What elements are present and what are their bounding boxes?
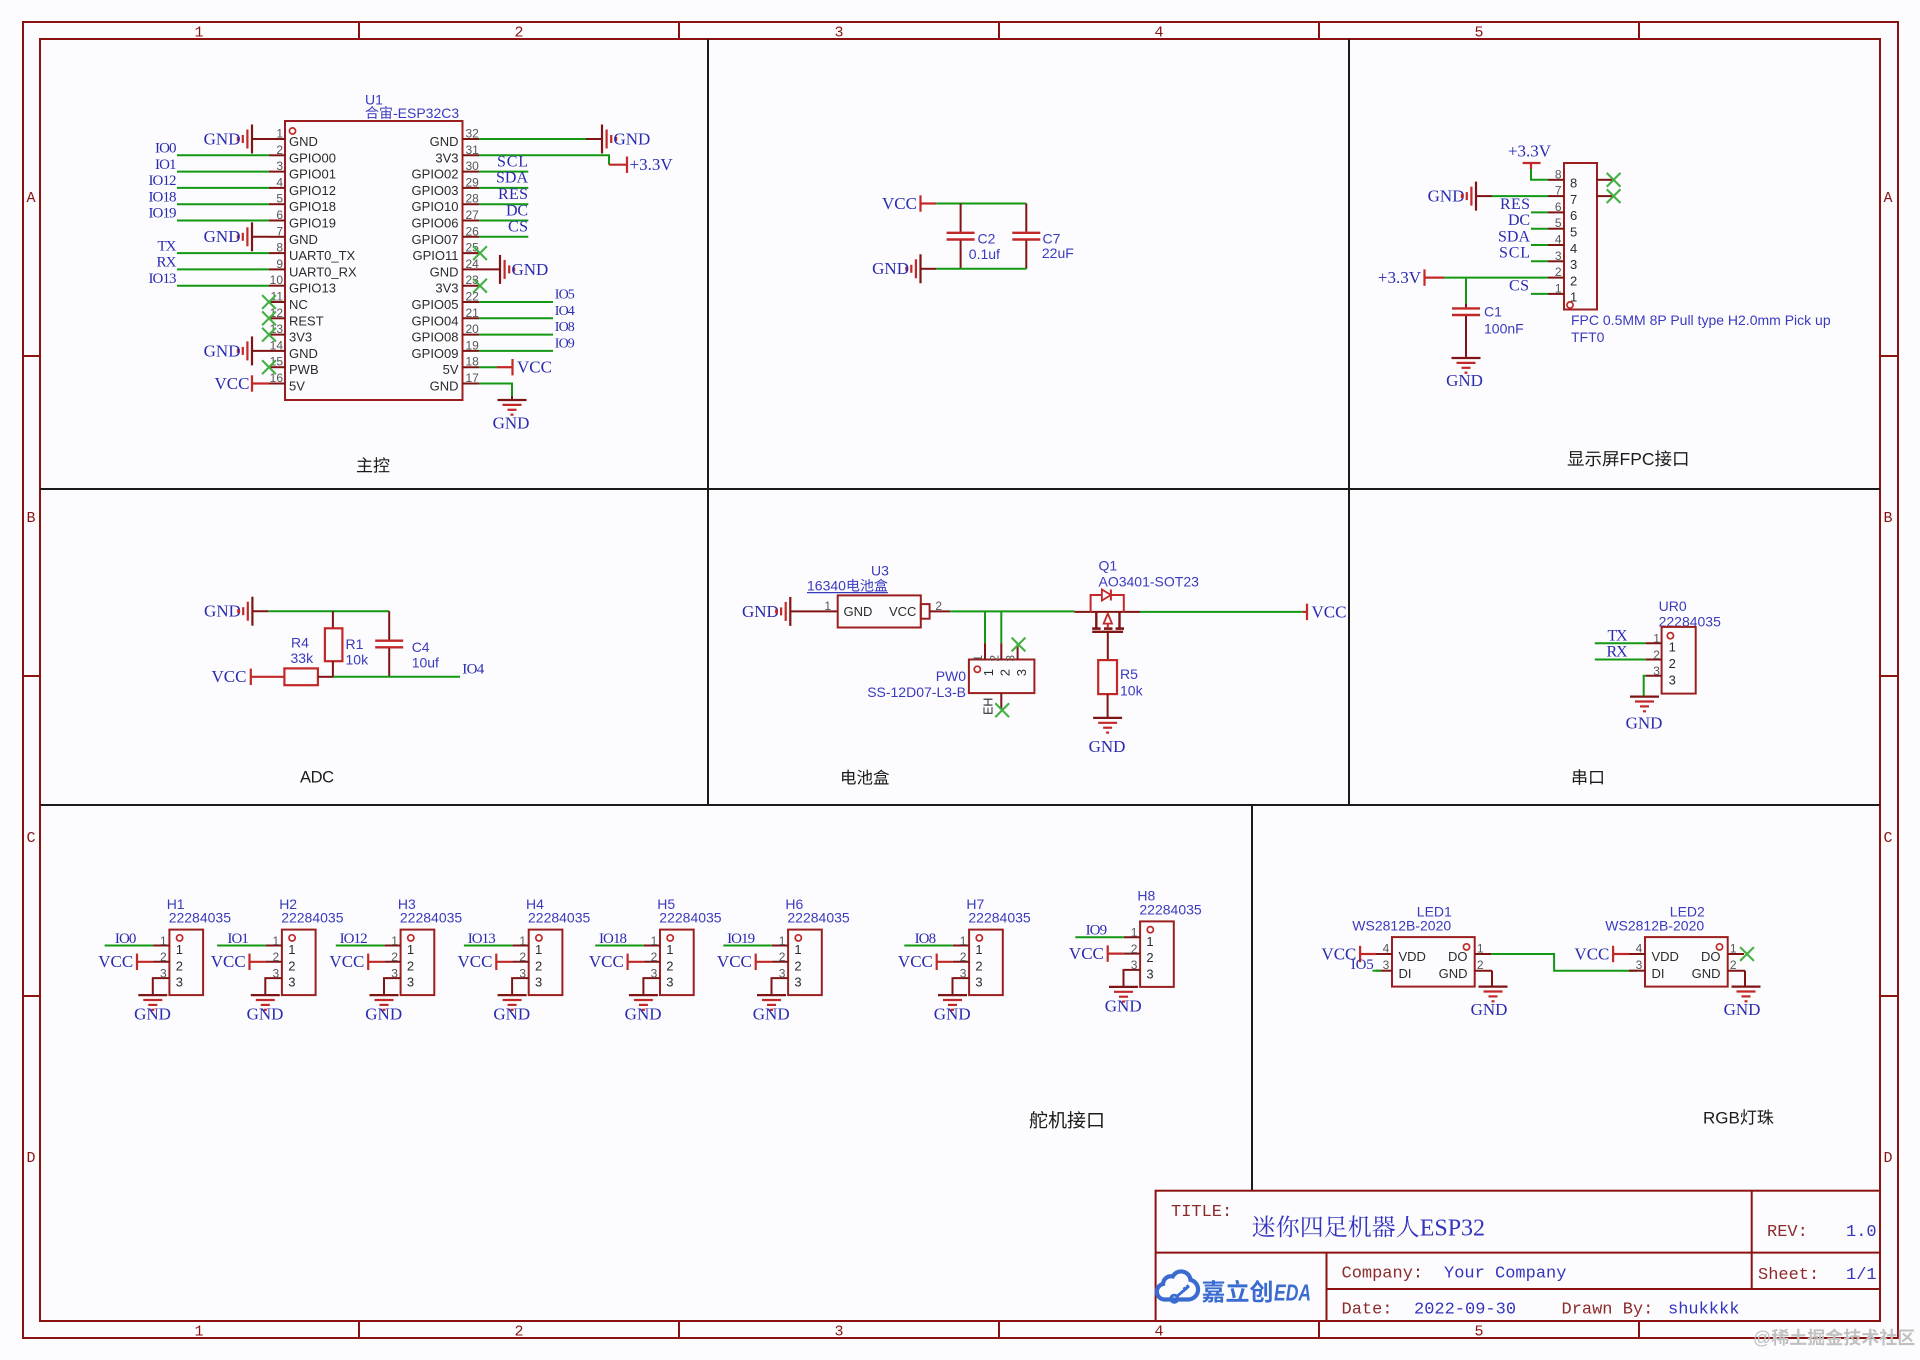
- svg-text:IO19: IO19: [149, 206, 177, 222]
- wire +3.3V to TFT0 pin8: [1531, 169, 1548, 180]
- power VCC at U1 pin16: [215, 374, 269, 393]
- svg-text:4: 4: [1154, 25, 1163, 42]
- svg-text:14: 14: [270, 338, 284, 352]
- connector H4 body: [512, 930, 562, 996]
- svg-text:2022-09-30: 2022-09-30: [1414, 1301, 1516, 1320]
- svg-text:2: 2: [1555, 265, 1562, 279]
- connector TFT0 body: [1548, 163, 1613, 310]
- JLCEDA logo 嘉立创EDA: [1157, 1271, 1311, 1305]
- svg-text:8: 8: [1570, 176, 1577, 191]
- svg-text:1: 1: [651, 934, 658, 948]
- svg-text:2: 2: [288, 958, 295, 973]
- svg-text:1: 1: [971, 655, 985, 662]
- no-connect X at U1 pin11: [262, 295, 276, 309]
- net label TX: [158, 238, 177, 254]
- svg-text:2: 2: [666, 958, 673, 973]
- ground GND at UR0 pin3: [1626, 697, 1663, 733]
- svg-text:1: 1: [1477, 942, 1484, 956]
- wire H4 pin3 to GND: [511, 978, 513, 995]
- svg-text:IO12: IO12: [340, 931, 368, 947]
- svg-text:20: 20: [466, 322, 480, 336]
- svg-text:ESP32: ESP32: [1420, 1216, 1485, 1242]
- svg-text:GND: GND: [1446, 371, 1483, 390]
- svg-text:U3: U3: [871, 563, 889, 579]
- svg-text:SDA: SDA: [496, 170, 528, 187]
- svg-text:Drawn By:: Drawn By:: [1562, 1301, 1654, 1320]
- connector UR0 value 22284035: [1659, 614, 1722, 630]
- svg-text:3: 3: [1653, 664, 1660, 678]
- wire net IO19 to H6 pin1: [723, 945, 772, 947]
- connector H6 body: [772, 930, 822, 996]
- wire GND to TFT0 pin7: [1492, 195, 1548, 197]
- svg-text:2: 2: [794, 958, 801, 973]
- svg-text:10uf: 10uf: [412, 654, 439, 670]
- svg-text:ADC: ADC: [300, 769, 334, 787]
- svg-text:GND: GND: [1692, 966, 1721, 981]
- svg-text:11: 11: [271, 290, 284, 304]
- capacitor C7 labels: [1042, 231, 1074, 262]
- svg-text:1: 1: [276, 127, 283, 141]
- connector H4 reference label: [526, 896, 544, 912]
- svg-text:IO1: IO1: [155, 157, 177, 173]
- svg-text:IO5: IO5: [555, 288, 575, 303]
- net label RES: [498, 186, 528, 203]
- svg-text:GPIO04: GPIO04: [412, 313, 459, 328]
- svg-text:22: 22: [466, 290, 480, 304]
- svg-text:IO8: IO8: [915, 931, 937, 947]
- svg-text:9: 9: [276, 257, 283, 271]
- title block REV value 1.0: [1846, 1223, 1877, 1242]
- no-connect X at PW0 pin3: [1012, 638, 1026, 652]
- wire UR0 pin3 to GND: [1644, 676, 1646, 697]
- svg-text:GND: GND: [204, 129, 241, 148]
- svg-text:1: 1: [1131, 926, 1138, 940]
- title block frame: [1156, 1191, 1880, 1321]
- svg-text:13: 13: [270, 322, 284, 336]
- svg-text:5: 5: [1474, 1324, 1483, 1341]
- title block Date label: [1342, 1301, 1393, 1320]
- wire net IO12 to H3 pin1: [336, 945, 385, 947]
- svg-text:GPIO02: GPIO02: [412, 167, 459, 182]
- svg-text:DC: DC: [1508, 212, 1530, 229]
- no-connect X at U1 pin12: [262, 311, 276, 325]
- net label IO5 at LED1: [1351, 957, 1374, 973]
- svg-text:22uF: 22uF: [1042, 245, 1074, 261]
- wire LED2 pin2 to GND: [1744, 971, 1745, 987]
- svg-text:5: 5: [1570, 225, 1577, 240]
- net label IO13 at H4: [468, 931, 496, 947]
- svg-text:IO18: IO18: [599, 931, 627, 947]
- svg-text:1: 1: [666, 942, 673, 957]
- svg-text:3: 3: [834, 1324, 843, 1341]
- svg-text:17: 17: [466, 371, 480, 385]
- ground GND at U1 pin17: [493, 400, 530, 433]
- svg-text:23: 23: [466, 273, 480, 287]
- svg-text:22284035: 22284035: [659, 910, 722, 926]
- net label CS at TFT0: [1509, 277, 1529, 294]
- svg-text:VCC: VCC: [212, 667, 247, 686]
- ground GND in ADC section: [204, 597, 268, 626]
- net label DC at TFT0: [1508, 212, 1530, 229]
- net label IO4: [555, 304, 575, 319]
- ground GND under C1: [1446, 358, 1483, 390]
- power VCC at H4 pin2: [458, 952, 513, 971]
- svg-text:DO: DO: [1701, 949, 1721, 964]
- svg-text:10k: 10k: [346, 652, 370, 668]
- net label IO19: [149, 206, 177, 222]
- power VCC at H3 pin2: [329, 952, 384, 971]
- connector TFT0 name text: [1571, 312, 1831, 328]
- svg-text:GND: GND: [1626, 714, 1663, 733]
- connector UR0 reference label: [1659, 598, 1687, 614]
- svg-text:GND: GND: [614, 129, 651, 148]
- svg-text:RX: RX: [1607, 644, 1628, 661]
- svg-text:26: 26: [466, 224, 480, 238]
- ground GND at U1 pin14: [204, 336, 269, 365]
- svg-text:GND: GND: [204, 341, 241, 360]
- svg-text:GPIO11: GPIO11: [412, 248, 458, 263]
- svg-text:21: 21: [466, 306, 480, 320]
- svg-text:GND: GND: [289, 134, 318, 149]
- svg-text:31: 31: [466, 143, 480, 157]
- svg-text:1: 1: [975, 942, 982, 957]
- connector TFT0 reference label: [1571, 329, 1605, 345]
- switch PW0 reference label: [936, 668, 967, 684]
- connector H3 value 22284035: [400, 910, 463, 926]
- svg-text:3: 3: [794, 975, 801, 990]
- wire net DC from U1: [479, 220, 528, 222]
- svg-text:VCC: VCC: [589, 952, 624, 971]
- power VCC at LED1 pin4: [1321, 944, 1376, 963]
- svg-text:4: 4: [1555, 233, 1562, 247]
- net label IO9 at H8: [1086, 923, 1108, 939]
- svg-text:D: D: [26, 1150, 35, 1167]
- ground GND at H1 pin3: [134, 995, 171, 1024]
- wire U1 pin31 to +3.3V: [479, 155, 627, 164]
- wire H7 pin3 to GND: [952, 978, 954, 995]
- power VCC at H2 pin2: [211, 952, 266, 971]
- svg-text:+3.3V: +3.3V: [630, 155, 674, 174]
- svg-text:TX: TX: [1608, 627, 1628, 644]
- svg-text:IO18: IO18: [149, 189, 177, 205]
- svg-text:GND: GND: [365, 1005, 402, 1024]
- svg-text:GND: GND: [625, 1005, 662, 1024]
- svg-text:2: 2: [1570, 273, 1577, 288]
- svg-text:U1: U1: [365, 92, 383, 108]
- ground GND at H6 pin3: [753, 995, 790, 1024]
- svg-text:3: 3: [1014, 669, 1029, 676]
- svg-text:PWB: PWB: [289, 362, 319, 377]
- wire net DC to TFT0 pin5: [1531, 228, 1548, 230]
- svg-text:16340: 16340: [807, 578, 846, 594]
- net label IO4: [462, 662, 485, 678]
- wire net IO18 to H5 pin1: [595, 945, 644, 947]
- no-connect X at PW0 EH pin: [995, 703, 1009, 717]
- wire LED1 DO to LED2 DI: [1491, 954, 1637, 971]
- svg-text:GPIO01: GPIO01: [289, 167, 336, 182]
- svg-text:GND: GND: [430, 379, 459, 394]
- section label RGB灯珠: [1703, 1109, 1773, 1128]
- svg-text:1: 1: [160, 934, 167, 948]
- svg-text:IO9: IO9: [1086, 923, 1108, 939]
- svg-text:RES: RES: [1500, 196, 1530, 213]
- wire net IO0 to U1 pin2: [177, 154, 269, 156]
- frame row letters right: [1883, 190, 1892, 1167]
- power VCC at H6 pin2: [717, 952, 772, 971]
- svg-text:VCC: VCC: [517, 358, 552, 377]
- svg-text:2: 2: [1669, 656, 1676, 671]
- wire net RES to TFT0 pin6: [1531, 211, 1548, 213]
- no-connect X at TFT0 pin7 right: [1607, 189, 1621, 203]
- svg-text:3V3: 3V3: [435, 150, 458, 165]
- frame row letters left: [26, 190, 35, 1167]
- connector H2 reference label: [279, 896, 297, 912]
- svg-text:GPIO09: GPIO09: [412, 346, 459, 361]
- no-connect X at U1 pin25: [473, 246, 487, 260]
- svg-text:2: 2: [1730, 958, 1737, 972]
- svg-text:GPIO07: GPIO07: [412, 232, 459, 247]
- battery holder U3 reference label: [871, 563, 889, 579]
- svg-text:22284035: 22284035: [169, 910, 232, 926]
- svg-text:GND: GND: [1439, 966, 1468, 981]
- svg-text:2: 2: [160, 950, 167, 964]
- svg-text:GND: GND: [430, 264, 459, 279]
- wire H6 pin3 to GND: [771, 978, 773, 995]
- svg-text:6: 6: [1555, 200, 1562, 214]
- power VCC at H1 pin2: [98, 952, 153, 971]
- svg-text:C4: C4: [412, 639, 430, 655]
- svg-text:1: 1: [194, 1324, 203, 1341]
- wire H3 pin3 to GND: [383, 978, 385, 995]
- svg-text:6: 6: [1570, 208, 1577, 223]
- section label 主控: [357, 457, 389, 473]
- svg-text:+3.3V: +3.3V: [1378, 268, 1422, 287]
- svg-text:25: 25: [466, 241, 480, 255]
- svg-text:Date:: Date:: [1342, 1301, 1393, 1320]
- wire net IO9 from U1: [479, 350, 553, 352]
- svg-text:1: 1: [1570, 290, 1577, 305]
- svg-text:A: A: [26, 190, 35, 207]
- svg-text:EDA: EDA: [1274, 1280, 1311, 1306]
- transistor Q1 value AO3401-SOT23: [1099, 574, 1200, 590]
- svg-text:3: 3: [273, 966, 280, 980]
- svg-text:5: 5: [1474, 25, 1483, 42]
- svg-text:27: 27: [466, 208, 480, 222]
- wire net IO8 to H7 pin1: [904, 945, 953, 947]
- power VCC at H8 pin2: [1069, 944, 1124, 963]
- svg-text:2: 2: [779, 950, 786, 964]
- power VCC at LED2 pin4: [1574, 944, 1629, 963]
- connector H7 value 22284035: [968, 910, 1031, 926]
- connector H4 value 22284035: [528, 910, 591, 926]
- svg-text:GPIO12: GPIO12: [289, 183, 336, 198]
- wire net TX to U1 pin8: [177, 252, 269, 254]
- svg-text:4: 4: [1636, 942, 1643, 956]
- resistor R5: [1098, 660, 1117, 718]
- svg-text:3V3: 3V3: [289, 330, 312, 345]
- svg-text:3: 3: [519, 966, 526, 980]
- svg-text:IO13: IO13: [149, 271, 177, 287]
- svg-text:REST: REST: [289, 313, 324, 328]
- svg-text:VCC: VCC: [882, 194, 917, 213]
- net label IO5: [555, 288, 575, 303]
- svg-text:1: 1: [779, 934, 786, 948]
- svg-text:GND: GND: [512, 260, 549, 279]
- resistor R4 labels: [291, 635, 315, 666]
- svg-text:1: 1: [519, 934, 526, 948]
- svg-text:2: 2: [535, 958, 542, 973]
- net label IO19 at H6: [727, 931, 755, 947]
- capacitor C2: [947, 204, 975, 269]
- wire U1 pin32 to GND: [479, 138, 602, 140]
- ground GND at LED2 pin2: [1724, 987, 1761, 1019]
- no-connect X at LED2 DO pin: [1740, 947, 1754, 961]
- wire net IO13 to H4 pin1: [464, 945, 513, 947]
- frame column numbers bottom: [194, 1324, 1483, 1341]
- no-connect X at TFT0 pin8 right: [1607, 173, 1621, 187]
- title block Drawn By value shukkkk: [1668, 1301, 1739, 1320]
- svg-text:2: 2: [1477, 958, 1484, 972]
- svg-text:Sheet:: Sheet:: [1758, 1266, 1819, 1285]
- wire H2 pin3 to GND: [264, 978, 266, 995]
- resistor R1: [325, 611, 343, 677]
- title block Drawn By label: [1562, 1301, 1654, 1320]
- LED LED2 value WS2812B-2020: [1605, 918, 1704, 934]
- wire net CS to TFT0 pin1: [1531, 293, 1548, 295]
- svg-text:RES: RES: [498, 186, 528, 203]
- svg-text:SCL: SCL: [1499, 245, 1530, 262]
- resistor R4: [284, 668, 333, 685]
- svg-text:2: 2: [975, 958, 982, 973]
- svg-text:@: @: [1753, 1328, 1771, 1348]
- svg-text:0.1uf: 0.1uf: [969, 246, 1000, 262]
- svg-text:DC: DC: [506, 202, 528, 219]
- svg-text:PW0: PW0: [936, 668, 967, 684]
- svg-text:VCC: VCC: [1574, 944, 1609, 963]
- title block Sheet value 1/1: [1846, 1266, 1877, 1285]
- net label IO12: [149, 173, 177, 189]
- svg-text:GND: GND: [1105, 997, 1142, 1016]
- svg-text:IO12: IO12: [149, 173, 177, 189]
- svg-text:DI: DI: [1652, 966, 1665, 981]
- svg-text:NC: NC: [289, 297, 308, 312]
- svg-text:RX: RX: [157, 255, 177, 271]
- svg-text:CS: CS: [1509, 277, 1529, 294]
- svg-text:32: 32: [466, 127, 480, 141]
- svg-text:6: 6: [276, 208, 283, 222]
- svg-text:1: 1: [1653, 632, 1660, 646]
- wire net IO1 to H2 pin1: [217, 945, 266, 947]
- svg-text:3: 3: [407, 975, 414, 990]
- wire net IO9 to H8 pin1: [1075, 936, 1124, 938]
- svg-text:IO9: IO9: [555, 336, 575, 351]
- svg-text:8: 8: [1555, 167, 1562, 181]
- title block REV label: [1767, 1223, 1808, 1242]
- svg-text:1: 1: [824, 599, 831, 613]
- title block Sheet label: [1758, 1266, 1819, 1285]
- switch PW0 body: [969, 643, 1035, 715]
- ground GND at H7 pin3: [934, 995, 971, 1024]
- wire net RX to U1 pin9: [177, 268, 269, 270]
- svg-text:2: 2: [176, 958, 183, 973]
- svg-text:3: 3: [160, 966, 167, 980]
- ground GND at H2 pin3: [247, 995, 284, 1024]
- wire net RX to UR0 pin2: [1595, 659, 1646, 661]
- svg-text:GND: GND: [430, 134, 459, 149]
- switch PW0 value SS-12D07-L3-B: [867, 684, 966, 700]
- svg-text:IO0: IO0: [115, 931, 137, 947]
- svg-text:C2: C2: [978, 231, 996, 247]
- ground GND at U3 pin1: [742, 597, 838, 626]
- svg-text:VCC: VCC: [889, 604, 916, 619]
- svg-text:28: 28: [466, 192, 480, 206]
- svg-text:3: 3: [288, 975, 295, 990]
- svg-text:1.0: 1.0: [1846, 1223, 1877, 1242]
- wire U1 pin24 to GND: [479, 268, 500, 270]
- svg-text:+3.3V: +3.3V: [1508, 142, 1552, 161]
- wire net TX to UR0 pin1: [1595, 642, 1646, 644]
- LED LED2 reference label: [1670, 904, 1705, 920]
- wire net CS from U1: [479, 236, 528, 238]
- svg-text:3: 3: [1570, 257, 1577, 272]
- power VCC at H5 pin2: [589, 952, 644, 971]
- LED LED1 body: [1376, 937, 1491, 987]
- svg-text:GND: GND: [1724, 1000, 1761, 1019]
- svg-text:GPIO08: GPIO08: [412, 330, 459, 345]
- svg-text:1: 1: [176, 942, 183, 957]
- svg-text:10: 10: [270, 273, 284, 287]
- svg-text:GND: GND: [844, 604, 873, 619]
- svg-text:FPC 0.5MM 8P Pull type H2.0mm: FPC 0.5MM 8P Pull type H2.0mm Pick up: [1571, 312, 1831, 328]
- svg-text:4: 4: [276, 175, 283, 189]
- ground GND at H3 pin3: [365, 995, 402, 1024]
- svg-text:22284035: 22284035: [400, 910, 463, 926]
- svg-text:GND: GND: [1471, 1000, 1508, 1019]
- wire net SDA from U1: [479, 187, 528, 189]
- svg-text:GND: GND: [872, 259, 909, 278]
- svg-text:GND: GND: [1428, 187, 1465, 206]
- wire net IO12 to U1 pin4: [177, 187, 269, 189]
- power VCC at Q1 drain: [1307, 602, 1346, 621]
- svg-text:3: 3: [1669, 672, 1676, 687]
- svg-text:18: 18: [466, 355, 480, 369]
- capacitor C1: [1452, 304, 1480, 358]
- svg-text:3: 3: [779, 966, 786, 980]
- watermark 稀土掘金技术社区: [1753, 1328, 1915, 1348]
- no-connect X at U1 pin23: [473, 279, 487, 293]
- svg-text:1: 1: [794, 942, 801, 957]
- svg-text:3: 3: [1636, 958, 1643, 972]
- svg-text:TFT0: TFT0: [1571, 329, 1605, 345]
- net label IO13: [149, 271, 177, 287]
- svg-text:UART0_RX: UART0_RX: [289, 264, 357, 279]
- wire LED1 pin2 to GND: [1491, 971, 1492, 987]
- svg-text:VCC: VCC: [717, 952, 752, 971]
- ground GND at U1 pin1: [204, 125, 269, 154]
- svg-text:C1: C1: [1484, 304, 1502, 320]
- net label IO1: [155, 157, 177, 173]
- svg-text:GPIO00: GPIO00: [289, 150, 336, 165]
- svg-text:WS2812B-2020: WS2812B-2020: [1605, 918, 1704, 934]
- svg-text:VCC: VCC: [898, 952, 933, 971]
- svg-text:2: 2: [987, 655, 1001, 662]
- svg-text:CS: CS: [508, 219, 528, 236]
- net label RES at TFT0: [1500, 196, 1530, 213]
- svg-text:Q1: Q1: [1099, 558, 1118, 574]
- connector H8 value 22284035: [1139, 902, 1202, 918]
- svg-text:3: 3: [1555, 249, 1562, 263]
- svg-text:7: 7: [1570, 192, 1577, 207]
